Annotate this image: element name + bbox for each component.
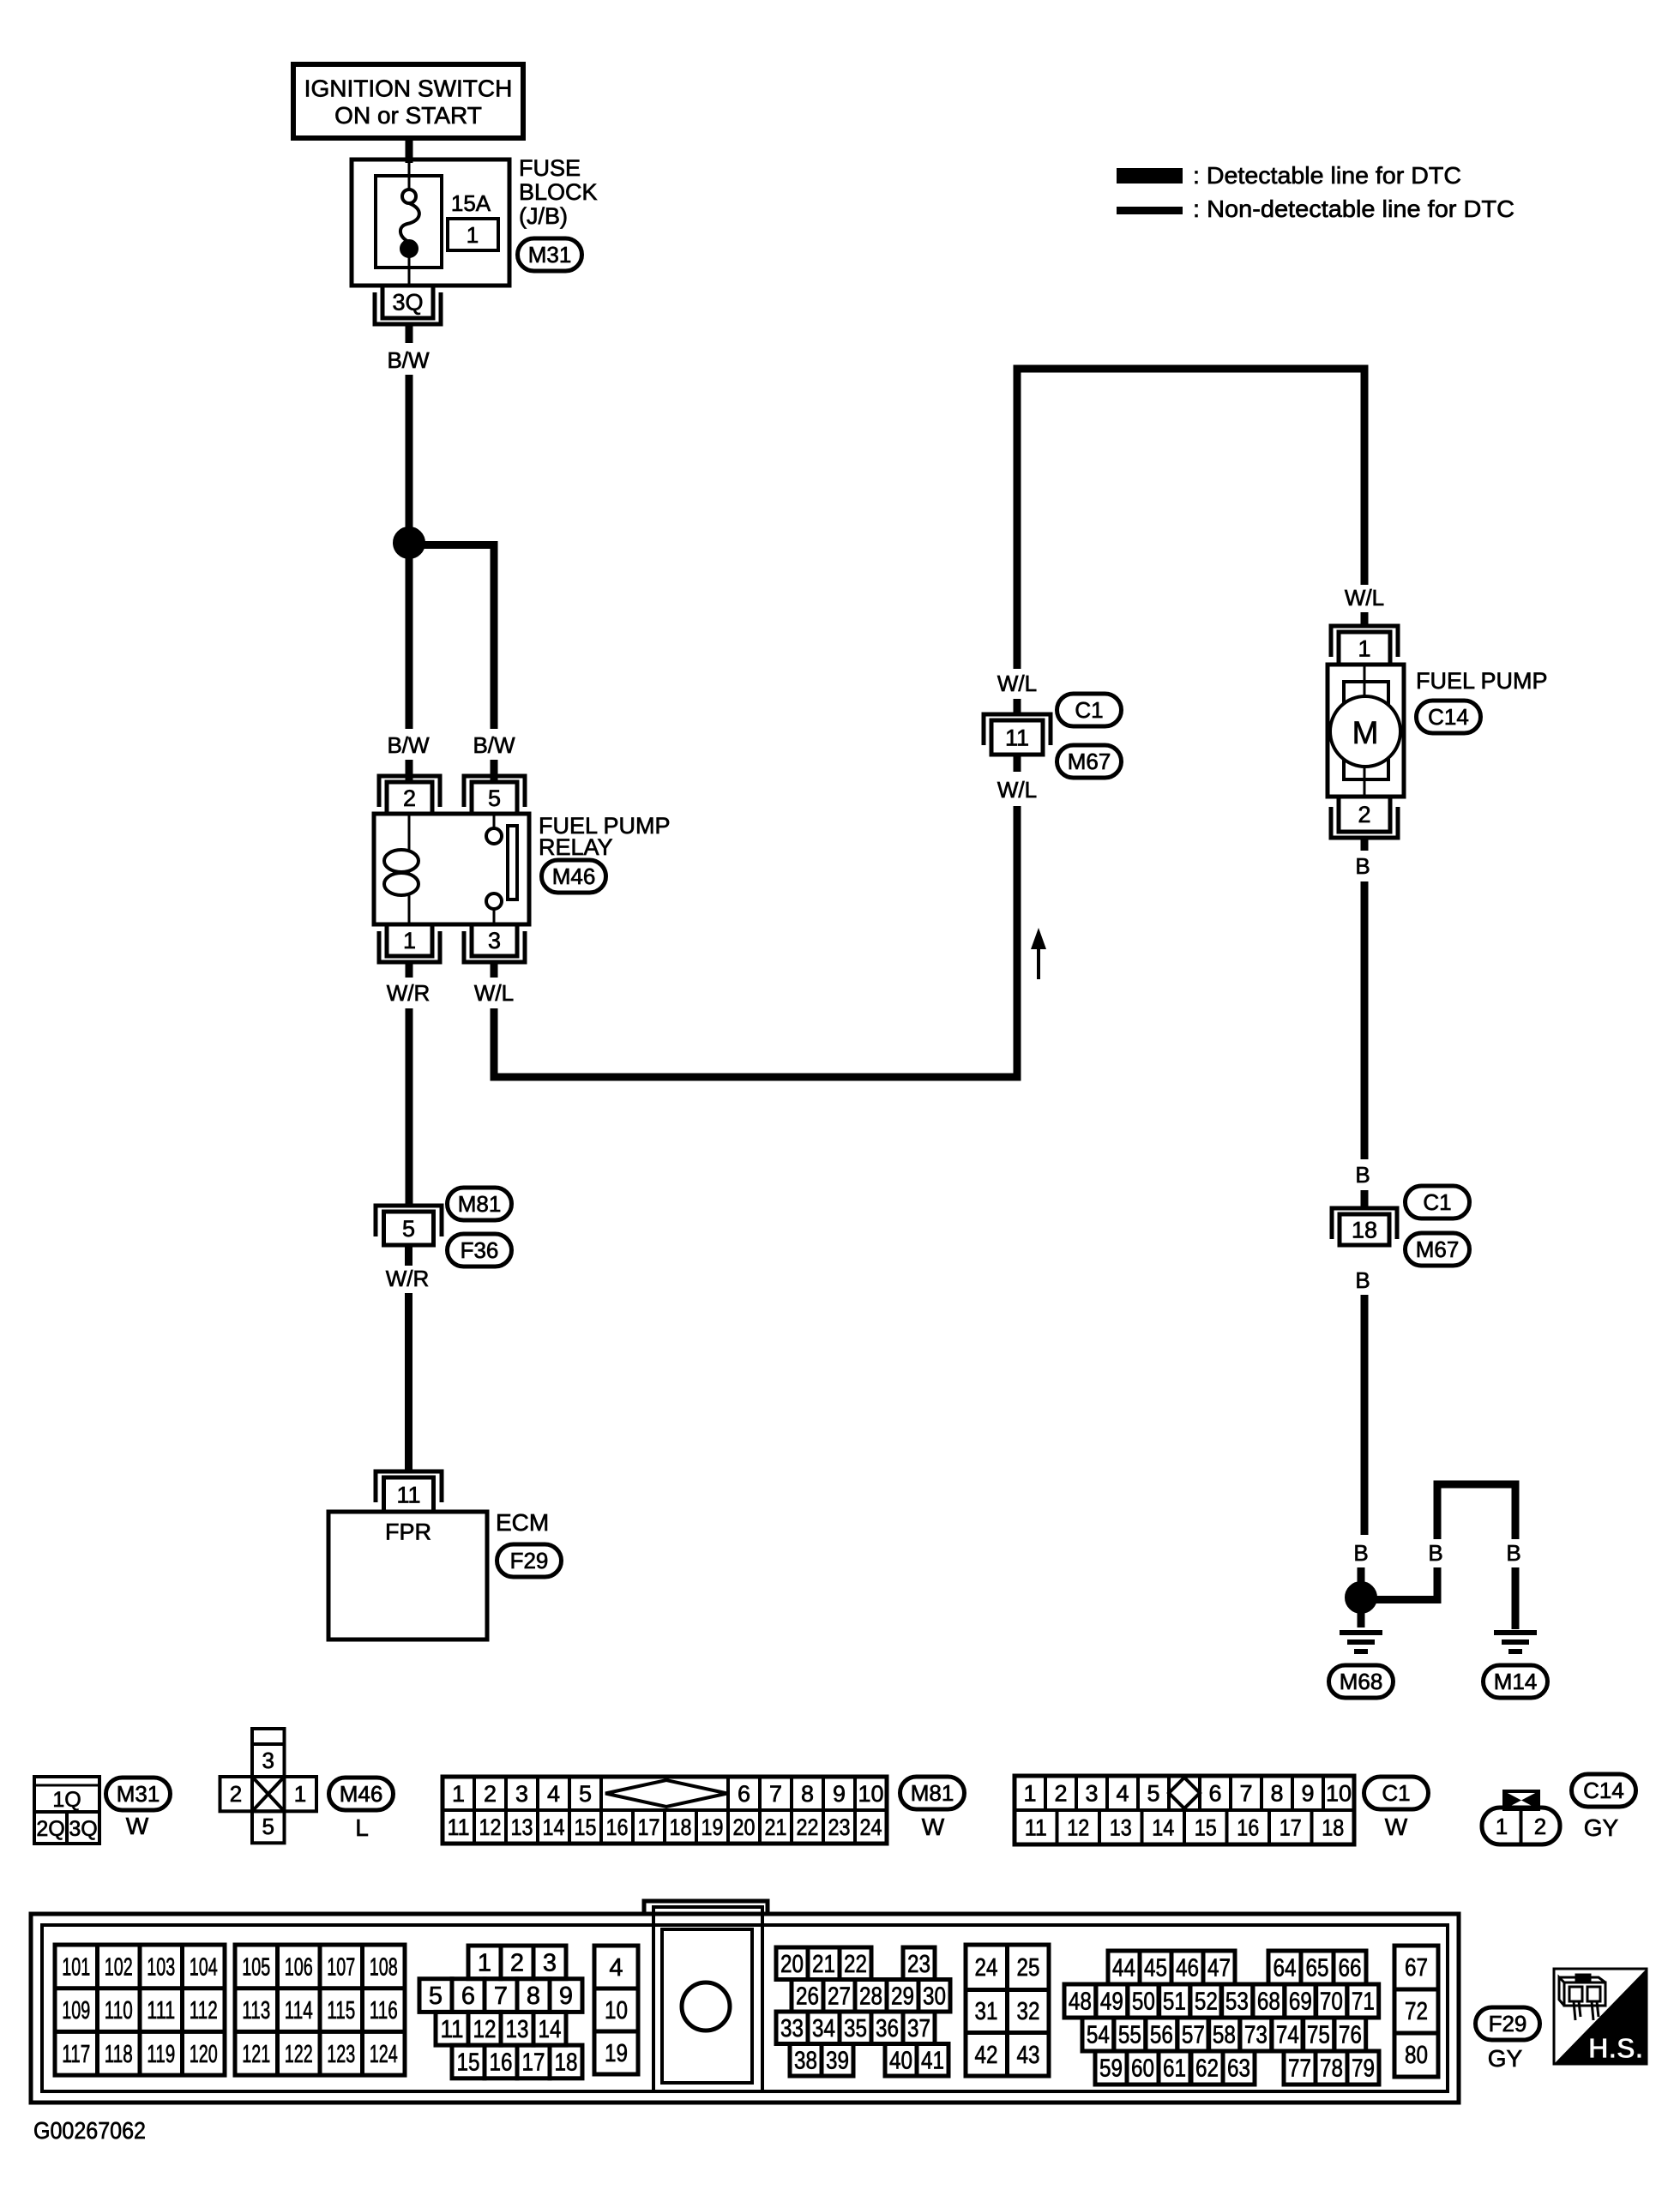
svg-text:C1: C1 [1423, 1189, 1451, 1215]
svg-text:116: 116 [370, 1997, 398, 2025]
svg-text:C14: C14 [1428, 704, 1469, 730]
svg-text:13: 13 [506, 2016, 529, 2043]
svg-text:11: 11 [1025, 1814, 1047, 1840]
svg-text:48: 48 [1069, 1988, 1092, 2016]
svg-text:4: 4 [609, 1954, 623, 1982]
svg-text:W/R: W/R [387, 980, 431, 1006]
svg-text:17: 17 [638, 1814, 660, 1840]
svg-text:70: 70 [1320, 1988, 1343, 2016]
svg-text:C1: C1 [1075, 697, 1103, 723]
svg-text:11: 11 [396, 1483, 420, 1508]
svg-text:H.S.: H.S. [1588, 2032, 1643, 2064]
svg-text:12: 12 [479, 1814, 502, 1840]
svg-text:80: 80 [1405, 2042, 1428, 2069]
svg-text:68: 68 [1257, 1988, 1280, 2016]
svg-text:11: 11 [1005, 725, 1029, 751]
svg-text:21: 21 [812, 1951, 835, 1978]
svg-text:119: 119 [147, 2041, 175, 2068]
svg-text:37: 37 [907, 2015, 930, 2043]
svg-text:5: 5 [1147, 1780, 1159, 1806]
svg-text:B: B [1355, 853, 1370, 879]
svg-text:123: 123 [327, 2041, 355, 2068]
svg-text:5: 5 [488, 785, 501, 811]
svg-text:L: L [355, 1814, 369, 1841]
svg-text:B: B [1428, 1540, 1442, 1566]
svg-text:5: 5 [429, 1982, 443, 2010]
svg-text:77: 77 [1288, 2055, 1311, 2083]
svg-text:75: 75 [1307, 2022, 1330, 2049]
svg-text:14: 14 [543, 1814, 565, 1840]
svg-text:W: W [126, 1813, 149, 1839]
svg-text:9: 9 [559, 1982, 573, 2010]
svg-text:3: 3 [515, 1781, 528, 1807]
svg-text:50: 50 [1132, 1988, 1155, 2016]
svg-text:40: 40 [889, 2047, 912, 2074]
svg-text:11: 11 [448, 1814, 470, 1840]
svg-text:M81: M81 [458, 1191, 502, 1217]
svg-text:102: 102 [105, 1954, 133, 1982]
svg-text:18: 18 [1352, 1218, 1377, 1243]
svg-text:1: 1 [452, 1781, 465, 1807]
svg-text:M31: M31 [528, 242, 572, 268]
svg-text:M46: M46 [552, 863, 596, 889]
svg-text:1: 1 [478, 1950, 491, 1977]
svg-text:16: 16 [606, 1814, 629, 1840]
svg-text:24: 24 [975, 1954, 998, 1982]
svg-text:69: 69 [1289, 1988, 1312, 2016]
svg-text:23: 23 [828, 1814, 851, 1840]
svg-text:B: B [1355, 1267, 1370, 1293]
svg-text:1: 1 [294, 1781, 306, 1807]
svg-text:3: 3 [1085, 1780, 1098, 1806]
svg-text:79: 79 [1352, 2055, 1375, 2083]
svg-text:22: 22 [797, 1814, 819, 1840]
svg-text:57: 57 [1182, 2022, 1205, 2049]
svg-text:42: 42 [975, 2042, 998, 2069]
svg-text:6: 6 [738, 1781, 750, 1807]
svg-text:113: 113 [242, 1997, 270, 2025]
svg-text:2: 2 [484, 1781, 497, 1807]
svg-text:F36: F36 [461, 1237, 499, 1263]
svg-text:118: 118 [105, 2041, 133, 2068]
svg-text:W/L: W/L [997, 671, 1037, 696]
svg-text:3: 3 [262, 1748, 274, 1773]
svg-text:34: 34 [812, 2015, 835, 2043]
svg-text:13: 13 [1110, 1814, 1132, 1840]
svg-text:60: 60 [1131, 2055, 1154, 2083]
svg-text:49: 49 [1100, 1988, 1123, 2016]
svg-text:39: 39 [826, 2047, 849, 2074]
svg-text:23: 23 [907, 1951, 930, 1978]
svg-text:33: 33 [780, 2015, 804, 2043]
svg-text:M81: M81 [911, 1780, 954, 1806]
svg-text:F29: F29 [510, 1548, 549, 1573]
svg-text:IGNITION SWITCH: IGNITION SWITCH [304, 75, 513, 101]
svg-text:1: 1 [467, 222, 479, 248]
svg-text:W: W [922, 1814, 945, 1840]
svg-text:45: 45 [1144, 1955, 1167, 1982]
svg-text:71: 71 [1352, 1988, 1375, 2016]
svg-text:35: 35 [844, 2015, 867, 2043]
svg-text:103: 103 [147, 1954, 175, 1982]
svg-text:1: 1 [1496, 1814, 1508, 1839]
svg-text:G00267062: G00267062 [33, 2117, 146, 2144]
svg-text:55: 55 [1118, 2022, 1141, 2049]
svg-text:28: 28 [859, 1982, 882, 2010]
svg-text:111: 111 [147, 1997, 175, 2025]
svg-text:104: 104 [190, 1954, 218, 1982]
svg-text:124: 124 [370, 2041, 398, 2068]
svg-text:74: 74 [1276, 2022, 1299, 2049]
svg-text:RELAY: RELAY [539, 834, 613, 860]
svg-text:65: 65 [1306, 1955, 1329, 1982]
svg-text:106: 106 [285, 1954, 313, 1982]
svg-text:1: 1 [403, 928, 416, 954]
svg-text:8: 8 [801, 1781, 814, 1807]
svg-text:M14: M14 [1494, 1669, 1538, 1694]
svg-text:78: 78 [1320, 2055, 1343, 2083]
svg-text:W: W [1385, 1814, 1408, 1840]
svg-text:W/L: W/L [474, 980, 514, 1006]
svg-text:7: 7 [1239, 1780, 1252, 1806]
svg-text:63: 63 [1227, 2055, 1250, 2083]
svg-text:9: 9 [1301, 1780, 1314, 1806]
svg-text:121: 121 [242, 2041, 270, 2068]
svg-text:2: 2 [510, 1950, 524, 1977]
svg-text:7: 7 [769, 1781, 782, 1807]
svg-text:1: 1 [1358, 636, 1370, 662]
svg-text:32: 32 [1017, 1998, 1040, 2025]
svg-text:43: 43 [1017, 2042, 1040, 2069]
svg-text:1: 1 [1023, 1780, 1036, 1806]
svg-text:101: 101 [62, 1954, 90, 1982]
svg-text:76: 76 [1339, 2022, 1362, 2049]
svg-text:64: 64 [1274, 1955, 1297, 1982]
svg-text:2: 2 [1358, 802, 1370, 827]
svg-text:15: 15 [457, 2049, 480, 2077]
svg-text:10: 10 [605, 1997, 628, 2025]
svg-text:54: 54 [1087, 2022, 1110, 2049]
svg-text:3: 3 [543, 1950, 557, 1977]
svg-text:20: 20 [733, 1814, 756, 1840]
svg-text:C14: C14 [1583, 1778, 1624, 1803]
svg-text:72: 72 [1405, 1998, 1428, 2025]
svg-text:C1: C1 [1382, 1780, 1410, 1806]
svg-text:112: 112 [190, 1997, 218, 2025]
svg-text:1Q: 1Q [52, 1788, 81, 1812]
svg-text:12: 12 [1067, 1814, 1089, 1840]
svg-text:115: 115 [327, 1997, 355, 2025]
svg-text:109: 109 [62, 1997, 90, 2025]
svg-text:19: 19 [605, 2040, 628, 2067]
svg-text:24: 24 [860, 1814, 882, 1840]
svg-text:16: 16 [490, 2049, 513, 2077]
svg-text:27: 27 [828, 1982, 851, 2010]
svg-text:B/W: B/W [387, 732, 430, 758]
svg-text:B: B [1353, 1540, 1368, 1566]
svg-text:61: 61 [1163, 2055, 1186, 2083]
svg-text:B: B [1355, 1162, 1370, 1188]
svg-text:10: 10 [1326, 1780, 1352, 1806]
svg-text:W/L: W/L [997, 777, 1037, 803]
svg-text:4: 4 [1116, 1780, 1129, 1806]
svg-text:7: 7 [494, 1982, 508, 2010]
svg-text:122: 122 [285, 2041, 313, 2068]
svg-text:110: 110 [105, 1997, 133, 2025]
svg-text:41: 41 [921, 2047, 944, 2074]
svg-text:17: 17 [522, 2049, 545, 2077]
svg-text:: Non-detectable line for DTC: : Non-detectable line for DTC [1193, 196, 1514, 222]
svg-text:18: 18 [670, 1814, 692, 1840]
svg-text:14: 14 [1152, 1814, 1174, 1840]
svg-text:5: 5 [262, 1814, 274, 1839]
svg-text:15: 15 [575, 1814, 597, 1840]
svg-text:26: 26 [796, 1982, 819, 2010]
svg-text:M68: M68 [1340, 1669, 1383, 1694]
svg-text:67: 67 [1405, 1954, 1428, 1982]
svg-text:FPR: FPR [385, 1519, 431, 1545]
svg-text:5: 5 [579, 1781, 592, 1807]
svg-text:B/W: B/W [387, 347, 430, 373]
svg-text:GY: GY [1488, 2045, 1523, 2072]
svg-text:17: 17 [1280, 1814, 1302, 1840]
svg-text:15: 15 [1195, 1814, 1217, 1840]
svg-text:BLOCK: BLOCK [519, 179, 598, 205]
svg-text:21: 21 [765, 1814, 787, 1840]
svg-text:15A: 15A [451, 190, 491, 216]
svg-text:FUEL PUMP: FUEL PUMP [1416, 668, 1548, 694]
svg-text:19: 19 [702, 1814, 724, 1840]
svg-text:56: 56 [1150, 2022, 1173, 2049]
svg-text:ECM: ECM [496, 1509, 549, 1536]
svg-text:6: 6 [1208, 1780, 1221, 1806]
svg-text:120: 120 [190, 2041, 218, 2068]
svg-text:4: 4 [547, 1781, 560, 1807]
svg-text:14: 14 [539, 2016, 562, 2043]
svg-text:108: 108 [370, 1954, 398, 1982]
svg-text:M67: M67 [1068, 749, 1111, 774]
svg-text:105: 105 [242, 1954, 270, 1982]
svg-text:30: 30 [923, 1982, 946, 2010]
svg-text:GY: GY [1584, 1814, 1619, 1841]
svg-text:M46: M46 [340, 1781, 383, 1807]
svg-text:47: 47 [1207, 1955, 1231, 1982]
svg-text:117: 117 [62, 2041, 90, 2068]
svg-text:2: 2 [230, 1781, 242, 1807]
svg-text:62: 62 [1195, 2055, 1219, 2083]
svg-text:58: 58 [1213, 2022, 1236, 2049]
svg-text:8: 8 [1270, 1780, 1283, 1806]
svg-text:52: 52 [1195, 1988, 1218, 2016]
svg-text:51: 51 [1163, 1988, 1186, 2016]
svg-text:73: 73 [1244, 2022, 1268, 2049]
svg-text:: Detectable line for DTC: : Detectable line for DTC [1193, 162, 1461, 189]
svg-text:36: 36 [876, 2015, 899, 2043]
svg-text:3Q: 3Q [392, 289, 423, 315]
svg-text:16: 16 [1237, 1814, 1259, 1840]
svg-text:5: 5 [402, 1216, 415, 1242]
svg-text:6: 6 [461, 1982, 475, 2010]
svg-text:10: 10 [858, 1781, 883, 1807]
svg-text:20: 20 [780, 1951, 804, 1978]
svg-text:B/W: B/W [473, 732, 515, 758]
svg-text:M31: M31 [117, 1781, 160, 1807]
svg-text:2Q: 2Q [36, 1817, 64, 1841]
svg-text:M67: M67 [1416, 1236, 1460, 1262]
svg-text:25: 25 [1017, 1954, 1040, 1982]
svg-text:2: 2 [1054, 1780, 1067, 1806]
svg-text:(J/B): (J/B) [519, 203, 568, 229]
svg-text:9: 9 [833, 1781, 846, 1807]
svg-text:F29: F29 [1489, 2011, 1527, 2037]
svg-text:38: 38 [794, 2047, 817, 2074]
svg-text:13: 13 [511, 1814, 533, 1840]
svg-text:3: 3 [488, 928, 501, 954]
svg-text:44: 44 [1112, 1955, 1135, 1982]
svg-text:46: 46 [1176, 1955, 1199, 1982]
svg-text:114: 114 [285, 1997, 313, 2025]
svg-text:107: 107 [327, 1954, 355, 1982]
svg-text:M: M [1352, 715, 1379, 750]
svg-text:ON or START: ON or START [334, 102, 482, 129]
svg-text:W/L: W/L [1345, 585, 1384, 611]
svg-text:29: 29 [891, 1982, 914, 2010]
svg-text:B: B [1506, 1540, 1520, 1566]
svg-text:2: 2 [403, 785, 416, 811]
svg-text:18: 18 [555, 2049, 578, 2077]
svg-text:31: 31 [975, 1998, 998, 2025]
svg-text:53: 53 [1225, 1988, 1249, 2016]
svg-text:8: 8 [527, 1982, 540, 2010]
svg-text:12: 12 [473, 2016, 497, 2043]
svg-text:W/R: W/R [386, 1266, 430, 1291]
svg-text:59: 59 [1099, 2055, 1123, 2083]
svg-text:22: 22 [844, 1951, 867, 1978]
svg-text:FUSE: FUSE [519, 155, 581, 181]
svg-text:66: 66 [1339, 1955, 1362, 1982]
svg-text:11: 11 [441, 2016, 464, 2043]
svg-text:3Q: 3Q [69, 1817, 97, 1841]
svg-text:18: 18 [1322, 1814, 1344, 1840]
svg-text:2: 2 [1534, 1814, 1546, 1839]
